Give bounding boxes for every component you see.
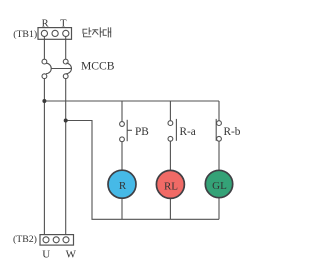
- svg-text:GL: GL: [212, 180, 227, 192]
- svg-text:W: W: [66, 248, 77, 260]
- svg-text:(TB1): (TB1): [13, 29, 37, 40]
- svg-text:R: R: [42, 19, 49, 30]
- svg-text:R-b: R-b: [224, 126, 241, 138]
- svg-text:R: R: [119, 180, 127, 192]
- svg-text:U: U: [42, 248, 50, 260]
- svg-text:RL: RL: [164, 180, 178, 192]
- svg-text:MCCB: MCCB: [81, 59, 115, 72]
- svg-text:T: T: [60, 19, 67, 30]
- svg-text:(TB2): (TB2): [13, 234, 37, 245]
- svg-text:PB: PB: [135, 126, 149, 138]
- svg-text:R-a: R-a: [180, 126, 196, 138]
